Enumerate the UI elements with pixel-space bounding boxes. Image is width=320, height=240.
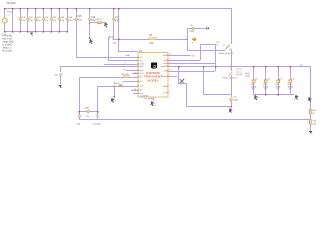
pin stub left adc0 bbox=[138, 63, 140, 64]
svg-text:0.1µ: 0.1µ bbox=[37, 20, 42, 22]
junction dot rail left bbox=[4, 8, 6, 10]
svg-text:TRANSIENT: TRANSIENT bbox=[144, 76, 163, 79]
svg-text:0.1µ: 0.1µ bbox=[29, 20, 34, 22]
svg-text:.ic V(n)=0: .ic V(n)=0 bbox=[2, 44, 13, 46]
capacitor column wire bbox=[12, 8, 13, 31]
wire return run bbox=[203, 94, 231, 95]
wire from mid rail down right of module bbox=[178, 66, 179, 83]
svg-text:rxd0: rxd0 bbox=[126, 54, 131, 57]
wire EN down and over bbox=[187, 39, 188, 50]
svg-text:22p: 22p bbox=[86, 116, 89, 118]
wire crystal top link bbox=[79, 111, 97, 112]
junction on C16 column bbox=[89, 22, 91, 24]
svg-text:g: g bbox=[154, 104, 156, 106]
port flag out bbox=[308, 97, 312, 102]
wire pin5 stub bbox=[126, 70, 138, 71]
capacitor C19 crystal right bbox=[96, 114, 99, 117]
pin stub right vcc bbox=[167, 92, 169, 93]
svg-text:adc: adc bbox=[163, 86, 166, 88]
pin stub left gnd bbox=[138, 66, 140, 67]
capacitor column C13 bbox=[59, 8, 60, 31]
wire pin6 stub bbox=[132, 73, 138, 74]
svg-text:C10: C10 bbox=[37, 17, 42, 19]
mid rail 3V3 left segment bbox=[60, 66, 138, 67]
svg-text:10k: 10k bbox=[113, 42, 117, 44]
svg-text:R3 0: R3 0 bbox=[97, 19, 102, 21]
svg-text:ESP8266: ESP8266 bbox=[146, 72, 161, 75]
svg-text:1k: 1k bbox=[216, 45, 218, 47]
pin stub left io1 bbox=[138, 56, 140, 57]
resistor R2 bbox=[123, 76, 129, 78]
ground flag bank left bbox=[254, 95, 258, 100]
svg-text:0.1µ: 0.1µ bbox=[21, 20, 26, 22]
svg-text:1-8: 1-8 bbox=[291, 78, 295, 80]
voltage source V1 bbox=[4, 8, 5, 18]
port symbol antenna bbox=[205, 26, 208, 30]
svg-text:C2: C2 bbox=[234, 97, 238, 99]
svg-text:Vbus: Vbus bbox=[7, 12, 13, 14]
svg-text:C16: C16 bbox=[91, 17, 96, 19]
wire lower horizontal run bbox=[186, 106, 231, 107]
svg-text:5%: 5% bbox=[289, 89, 292, 91]
resistor R14 column bbox=[290, 66, 291, 94]
pin stub left io2 bbox=[138, 81, 140, 82]
capacitor column C10 bbox=[35, 8, 36, 31]
wire pin7 stub bbox=[124, 81, 138, 82]
svg-text:t=0 1m: t=0 1m bbox=[236, 67, 242, 70]
wire right vertical from top rail bbox=[231, 8, 232, 44]
svg-text:R2 470: R2 470 bbox=[122, 74, 130, 76]
pin stub right io4 bbox=[167, 63, 169, 64]
resistor R1 on EN wire bbox=[149, 38, 157, 40]
wire crystal left leg bbox=[79, 77, 80, 120]
wire RST vertical bbox=[215, 44, 216, 71]
pin stub bottom GND bbox=[153, 97, 154, 101]
wire GPIO0 with resistor R2 bbox=[79, 77, 138, 78]
wire bank bottom bbox=[253, 94, 294, 95]
svg-text:0.1µ: 0.1µ bbox=[60, 20, 65, 22]
op-amp U1 module body bbox=[138, 53, 168, 98]
svg-text:rst: rst bbox=[123, 68, 126, 71]
svg-text:5%: 5% bbox=[264, 89, 267, 91]
wire pin3 run bbox=[104, 64, 138, 65]
svg-text:Vout: Vout bbox=[245, 72, 250, 75]
svg-text:0.1µ: 0.1µ bbox=[115, 20, 120, 22]
wire pin10 stub bbox=[133, 93, 138, 94]
pin stub left io14 bbox=[138, 73, 140, 74]
capacitor C17 column bbox=[113, 8, 114, 39]
pin stub right io5 bbox=[167, 60, 169, 61]
svg-text:ser. model: ser. model bbox=[144, 97, 155, 100]
svg-text:10k: 10k bbox=[149, 43, 154, 45]
wire IO5 run bbox=[168, 63, 215, 64]
svg-text:.step p 1: .step p 1 bbox=[2, 46, 12, 49]
port flag +5V bbox=[104, 22, 108, 27]
capacitor column C11 bbox=[43, 8, 44, 31]
resistor R15 far right bbox=[310, 109, 312, 114]
pin stub left tout bbox=[138, 93, 140, 94]
wire EN stub up bbox=[187, 28, 188, 39]
switch S1 reset bbox=[225, 45, 229, 50]
net tick on C17 bottom bbox=[113, 38, 115, 40]
wire RTS node column bbox=[108, 37, 110, 39]
capacitor C16 column with branch bbox=[89, 8, 90, 38]
resistor R13 column bbox=[278, 66, 279, 94]
svg-text:.meas V(b): .meas V(b) bbox=[2, 41, 13, 43]
svg-text:.lib tt.cmp: .lib tt.cmp bbox=[2, 49, 13, 52]
svg-text:3: 3 bbox=[169, 85, 170, 87]
svg-text:1-8: 1-8 bbox=[267, 78, 271, 80]
svg-text:Power_Switch_1: Power_Switch_1 bbox=[223, 77, 239, 80]
svg-text:node: node bbox=[245, 76, 251, 78]
svg-text:4.7µ: 4.7µ bbox=[77, 20, 82, 22]
wire jog into module top bbox=[118, 51, 138, 52]
wire top bank bottom rail bbox=[4, 31, 67, 32]
svg-text:8: 8 bbox=[169, 91, 170, 93]
svg-text:TP Vocb: TP Vocb bbox=[7, 2, 17, 5]
svg-text:5%: 5% bbox=[252, 89, 255, 91]
svg-text:sw: sw bbox=[223, 45, 226, 47]
svg-text:C5: C5 bbox=[29, 17, 34, 19]
ground flag under C6 bbox=[58, 85, 62, 88]
svg-text:C6: C6 bbox=[54, 75, 58, 77]
svg-text:R15: R15 bbox=[312, 110, 317, 112]
port flag bank right bbox=[295, 95, 299, 100]
svg-text:C19 22p: C19 22p bbox=[93, 124, 102, 126]
crystal X1 body on link bbox=[87, 110, 90, 113]
wire bottom ground rail bbox=[79, 119, 310, 120]
svg-text:ron=1: ron=1 bbox=[236, 70, 241, 73]
svg-text:C12: C12 bbox=[52, 17, 57, 19]
module logo icon bbox=[151, 63, 157, 69]
ground flag under bank bbox=[30, 32, 34, 35]
wire stub to ground mid bbox=[114, 86, 115, 96]
svg-text:0.1µ: 0.1µ bbox=[91, 20, 96, 22]
resistor R12 column bbox=[265, 66, 266, 94]
net flag EN bbox=[192, 38, 196, 41]
svg-text:C14: C14 bbox=[68, 17, 73, 19]
pin stub left io0 bbox=[138, 76, 140, 77]
nc cross on right pin bbox=[168, 76, 177, 77]
wire EN horizontal to flag bbox=[113, 39, 187, 40]
capacitor column C12 bbox=[51, 8, 52, 31]
wire pin1 long run bbox=[76, 57, 138, 58]
pin stub right adc bbox=[167, 86, 169, 87]
wire pin9 stub bbox=[131, 90, 138, 91]
svg-text:470p: 470p bbox=[189, 31, 194, 33]
capacitor C9 on branch bbox=[191, 27, 194, 30]
resistor R3 on branch bbox=[97, 21, 101, 23]
pin stub left d1 bbox=[138, 89, 140, 90]
junction dot lower node bbox=[230, 106, 232, 108]
svg-text:5%: 5% bbox=[276, 89, 279, 91]
svg-text:R6 1k: R6 1k bbox=[114, 83, 121, 85]
pin stub right chpd bbox=[167, 75, 169, 76]
svg-text:out: out bbox=[300, 63, 303, 66]
svg-text:C21: C21 bbox=[312, 120, 317, 122]
wire RXD to corner bbox=[168, 60, 200, 61]
svg-text:1k: 1k bbox=[312, 113, 315, 115]
svg-text:.tran 0 2m: .tran 0 2m bbox=[2, 37, 12, 40]
svg-text:TXD: TXD bbox=[190, 56, 195, 58]
pin stub left rxd bbox=[138, 60, 140, 61]
svg-text:5: 5 bbox=[107, 27, 109, 29]
ground flag far right bbox=[309, 131, 313, 134]
capacitor C21 far right bbox=[310, 120, 312, 125]
svg-text:100n: 100n bbox=[234, 99, 240, 101]
svg-text:esp8266: esp8266 bbox=[140, 95, 149, 97]
pin stub right rst bbox=[167, 70, 169, 71]
svg-text:-- Vce hfe: -- Vce hfe bbox=[2, 35, 13, 37]
ground flag below U1 bbox=[150, 101, 154, 106]
capacitor column C4 bbox=[20, 8, 21, 31]
switch S2 power bbox=[231, 66, 232, 71]
svg-text:0.1µ: 0.1µ bbox=[52, 20, 57, 22]
resistor R11 column bbox=[253, 66, 254, 94]
svg-text:LT: LT bbox=[7, 15, 10, 17]
pin stub left xpd bbox=[138, 85, 140, 86]
capacitor column C14 bbox=[67, 8, 68, 31]
wire top power rail Vbus bbox=[4, 8, 231, 9]
svg-text:26M: 26M bbox=[85, 107, 89, 109]
wire TXD net label stub bbox=[168, 55, 190, 56]
wire EN column from top rail bbox=[118, 8, 119, 51]
pin stub right txd bbox=[167, 55, 169, 56]
ground flag under C16 column bbox=[89, 39, 93, 44]
svg-text:C18: C18 bbox=[76, 124, 81, 126]
svg-text:MODEL: MODEL bbox=[148, 79, 160, 82]
endpoint dot C16 column bbox=[89, 37, 91, 39]
svg-text:0.1µ: 0.1µ bbox=[68, 20, 73, 22]
svg-text:RTS: RTS bbox=[109, 36, 114, 38]
svg-text:roff=1M: roff=1M bbox=[236, 73, 243, 76]
svg-text:R1: R1 bbox=[149, 35, 153, 37]
svg-text:C11: C11 bbox=[44, 17, 49, 19]
wire pin2 run bbox=[108, 60, 138, 61]
resistor tick on XTAL wire bbox=[119, 85, 122, 87]
wire RST run bbox=[168, 71, 215, 72]
svg-text:10n: 10n bbox=[312, 123, 316, 125]
capacitor C20 lower right of switch bbox=[231, 94, 232, 97]
ground flag mid bbox=[111, 98, 115, 103]
svg-text:2: 2 bbox=[169, 65, 170, 67]
wire crystal right leg bbox=[97, 86, 98, 120]
capacitor C15 column to pin 1 bbox=[76, 8, 77, 57]
capacitor column C5 bbox=[27, 8, 28, 31]
svg-text:C15: C15 bbox=[77, 16, 82, 18]
capacitor C6 to ground from mid rail bbox=[60, 66, 61, 72]
svg-text:0.1µ: 0.1µ bbox=[44, 20, 49, 22]
svg-text:1-8: 1-8 bbox=[255, 78, 259, 80]
svg-text:C13: C13 bbox=[60, 17, 65, 19]
mid rail 3V3 right segment bbox=[168, 66, 310, 67]
svg-text:1-8: 1-8 bbox=[279, 78, 283, 80]
wire XTAL right leg to pin bbox=[97, 86, 138, 87]
junction dot EN node bbox=[186, 38, 188, 40]
svg-text:C4: C4 bbox=[21, 17, 26, 19]
svg-text:vcc: vcc bbox=[163, 92, 166, 94]
wire C9 branch bbox=[187, 28, 206, 29]
pin stub left io16 bbox=[138, 69, 140, 70]
pin stub right gnd2 bbox=[167, 66, 169, 67]
wire RXD top run bbox=[200, 44, 215, 45]
capacitor C18 crystal left bbox=[78, 114, 81, 117]
ground flag lower node bbox=[229, 108, 233, 113]
wire branch to +5V port bbox=[89, 22, 106, 23]
svg-text:en: en bbox=[192, 42, 194, 44]
